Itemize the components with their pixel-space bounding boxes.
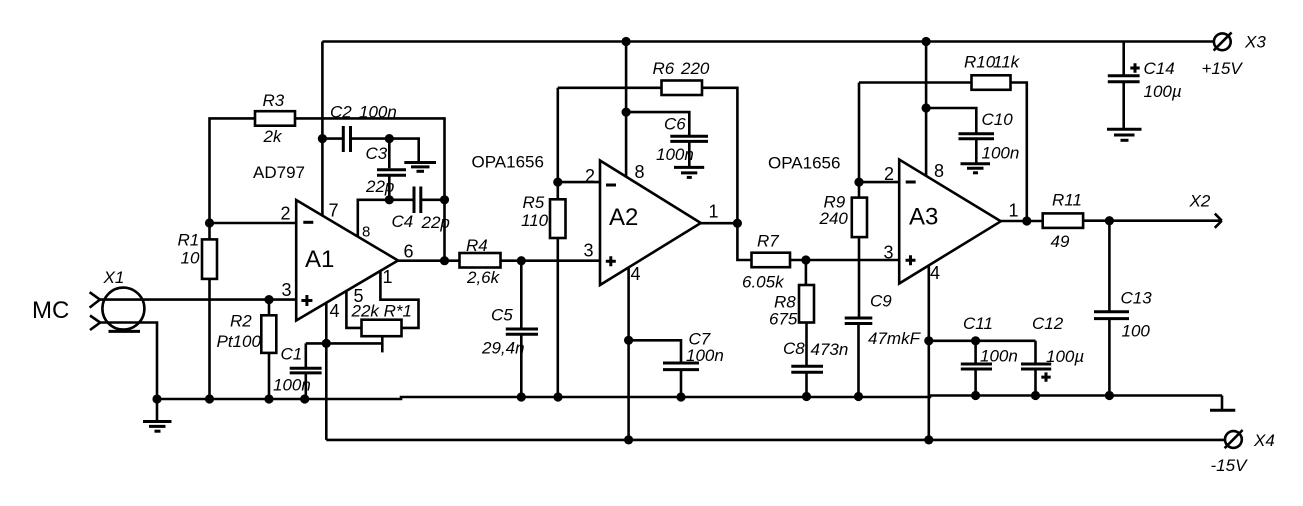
node A3 output junction [1022,216,1031,225]
svg-text:C2: C2 [330,103,352,122]
resistor R7 [752,253,791,268]
svg-text:11k: 11k [993,53,1021,72]
svg-text:4: 4 [930,263,940,283]
resistor R1 [208,223,211,239]
resistor R10 [972,75,1011,90]
wire A2 pin 2 [558,181,600,184]
node C10 junction [922,103,931,112]
svg-text:C5: C5 [491,306,513,325]
ground symbol under C14 [1107,128,1142,131]
svg-text:A3: A3 [909,204,938,231]
svg-text:100n: 100n [359,103,397,122]
svg-text:22k R*1: 22k R*1 [351,302,412,321]
svg-text:3: 3 [884,243,894,263]
svg-text:R5: R5 [523,193,545,212]
svg-text:47mkF: 47mkF [868,329,922,348]
connector X4 [1225,431,1242,448]
svg-text:X4: X4 [1253,431,1275,450]
resistor R8 [805,260,808,285]
svg-text:R3: R3 [263,91,285,110]
connector X1 [102,288,144,330]
ground rail dots [152,394,161,403]
wire R3 left to pin2 node [210,118,256,223]
-15V bottom rail [326,439,1225,442]
wire to ground from C2-C3 node [389,139,418,161]
node C3 bottom junction [385,195,394,204]
svg-text:R2: R2 [230,312,252,331]
node A3 pin4 on rail [924,435,933,444]
svg-text:C13: C13 [1121,289,1153,308]
svg-text:3: 3 [584,241,594,261]
wire A3 output [1001,220,1043,223]
op-amp A2 [600,161,701,286]
svg-text:C1: C1 [281,345,303,364]
svg-text:Pt100: Pt100 [217,332,262,351]
svg-text:100n: 100n [982,144,1020,163]
svg-text:8: 8 [934,161,944,181]
svg-text:110: 110 [521,211,549,230]
svg-text:100n: 100n [656,145,694,164]
capacitor C14 electrolytic [1122,42,1125,76]
minus sign A2 [606,184,616,187]
ground stub right end of rail [1221,396,1224,410]
wire A2 pin 8 from rail [625,42,628,178]
X1 upper contact chevron [90,292,100,307]
node C4 right junction [440,195,449,204]
node C11 top [971,336,980,345]
svg-text:2: 2 [281,204,291,224]
svg-text:OPA1656: OPA1656 [768,154,840,173]
node A2 pin2 [553,178,562,187]
op-amp A3 [899,160,1001,284]
node pin2 [205,218,214,227]
wire A1 pin 2 input [210,222,297,225]
wire A3 pin 2 [859,181,899,184]
svg-text:8: 8 [635,162,645,182]
svg-text:C3: C3 [366,144,388,163]
wire A2 output [701,222,738,225]
svg-text:2: 2 [884,164,894,184]
node A2 pin4 on rail [624,435,633,444]
wire A2 output down to R7 [737,223,751,260]
minus sign A3 [906,181,916,184]
svg-text:2k: 2k [263,127,283,146]
svg-text:100n: 100n [273,376,311,395]
capacitor C7 [629,340,681,362]
wire A1 pin 3 input from X1 [100,298,296,301]
resistor R9 [858,83,861,198]
capacitor C5 [520,261,523,329]
wire C1 top to A1 pin4 line [306,342,383,345]
svg-text:AD797: AD797 [253,163,305,182]
wire V+ vertical to A1 pin 7 [321,42,324,216]
capacitor C6 [626,112,689,135]
plus sign A2 [606,256,616,266]
svg-text:C9: C9 [870,292,892,311]
svg-text:1: 1 [709,202,719,222]
node C2 left junction [318,134,327,143]
svg-text:8: 8 [362,224,370,241]
node C11 junction [924,336,933,345]
node C2 right junction [385,134,394,143]
svg-text:4: 4 [330,301,340,321]
svg-text:C14: C14 [1144,59,1175,78]
node feedback-output junction [440,256,449,265]
resistor R4 [460,253,501,268]
ground symbol under C6 [674,166,704,169]
node junction top rail A2 [622,37,631,46]
svg-text:X2: X2 [1189,192,1211,211]
svg-text:-15V: -15V [1211,456,1249,475]
node C5 junction [517,256,526,265]
op-amp A1 [296,200,398,321]
svg-text:100n: 100n [686,346,724,365]
svg-text:49: 49 [1051,232,1070,251]
resistor R11 [1043,213,1083,228]
capacitor C10 [926,108,976,133]
svg-text:+15V: +15V [1202,59,1244,78]
ground rail [157,396,1222,400]
svg-text:X1: X1 [103,268,125,287]
wire R3 right to feedback vertical [295,118,445,260]
svg-text:R10: R10 [964,53,996,72]
capacitor C2 [322,137,342,140]
X1 lower contact chevron [90,316,100,331]
svg-text:C10: C10 [982,110,1014,129]
plus sign C14 [1130,63,1139,72]
svg-text:473n: 473n [811,340,849,359]
svg-text:A2: A2 [609,204,638,231]
potentiometer R*1 22k [346,291,361,328]
node pin4-C1 junction [322,339,331,348]
plus sign C12 [1041,372,1050,381]
capacitor C11 [974,341,977,364]
wire A2 pin 4 down [627,267,630,440]
capacitor C3 [388,139,391,169]
svg-text:C8: C8 [783,339,805,358]
svg-text:100µ: 100µ [1144,82,1182,101]
svg-text:R6: R6 [653,59,675,78]
svg-text:1: 1 [383,267,393,287]
svg-text:A1: A1 [305,246,334,273]
node C13 junction [1105,216,1114,225]
resistor R5 [556,88,559,200]
resistor R2 [264,295,273,304]
minus sign A1 [303,221,313,224]
svg-text:C6: C6 [664,115,686,134]
svg-text:2: 2 [585,166,595,186]
svg-text:6: 6 [404,242,414,262]
svg-text:675: 675 [769,310,798,329]
capacitor C1 [304,343,307,368]
svg-text:OPA1656: OPA1656 [472,153,544,172]
svg-text:100n: 100n [980,347,1018,366]
svg-text:X3: X3 [1244,33,1266,52]
svg-text:3: 3 [282,280,292,300]
capacitor C12 electrolytic [1034,341,1037,364]
wire A3 pin 8 from rail [925,42,928,177]
svg-text:C12: C12 [1032,314,1064,333]
svg-text:R11: R11 [1052,191,1082,210]
connector X3 [1214,33,1231,50]
resistor R6 [662,81,703,96]
node R8 junction [801,255,810,264]
svg-text:6.05k: 6.05k [742,273,785,292]
svg-text:240: 240 [819,209,849,228]
plus sign A1 [301,295,312,306]
ground symbol under C10 [961,162,991,165]
svg-text:7: 7 [329,201,339,221]
capacitor C13 [1108,221,1111,311]
node A2 output junction [733,219,742,228]
X2 output arrow [1215,214,1222,228]
wire A1 output row [398,259,460,262]
wire pin4 to C11 C12 [929,339,1036,342]
svg-text:C11: C11 [963,314,993,333]
plus sign A3 [906,255,916,265]
svg-text:R7: R7 [757,232,779,251]
svg-text:100: 100 [1122,322,1151,341]
svg-text:MC: MC [32,297,69,324]
node C7 junction [624,336,633,345]
svg-text:100µ: 100µ [1046,347,1084,366]
wire +15V top rail [322,40,1214,43]
svg-text:R4: R4 [466,236,488,255]
wire X1 lower contact to ground rail [100,323,157,400]
svg-text:2,6k: 2,6k [466,268,501,287]
ground symbol near C3 [404,161,436,164]
wire A1 pin 4 down to -15V rail [325,303,328,440]
svg-text:1: 1 [1009,201,1019,221]
wire C3 node to A1 pin 8 [358,200,390,237]
svg-text:29,4n: 29,4n [481,339,525,358]
ground symbol main left [156,399,159,421]
X1 bottom bar [109,330,141,333]
node A3 pin2 [854,178,863,187]
svg-text:22p: 22p [421,213,450,232]
svg-text:R1: R1 [178,231,200,250]
node C6 junction [622,108,631,117]
capacitor C9 [845,317,873,320]
svg-text:4: 4 [631,264,641,284]
capacitor C8 [791,365,823,368]
svg-text:22p: 22p [365,177,394,196]
svg-text:10: 10 [181,249,200,268]
wire A3 pin 4 down [927,265,930,440]
svg-text:C4: C4 [392,212,414,231]
resistor R3 [255,111,295,126]
capacitor C4 [389,199,412,202]
svg-text:220: 220 [680,59,710,78]
node junction top rail A3 [922,37,931,46]
